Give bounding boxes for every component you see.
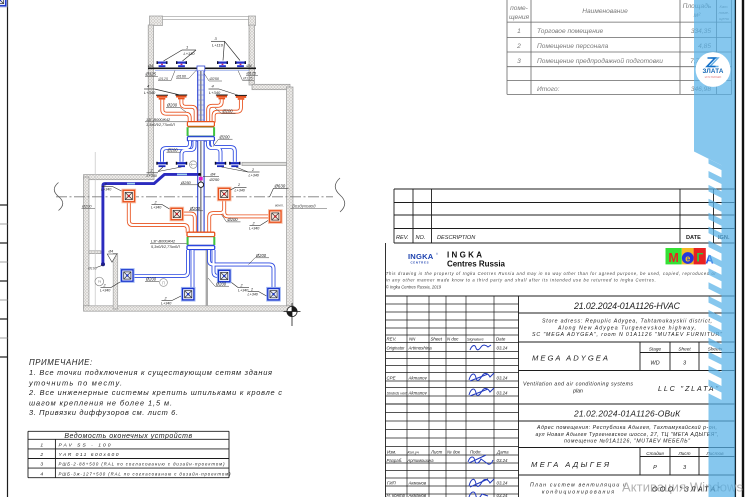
svg-text:Ø250: Ø250: [209, 76, 220, 81]
svg-text:Акманов: Акманов: [408, 480, 427, 485]
svg-text:3: 3: [40, 462, 43, 468]
svg-text:№ док: № док: [447, 450, 461, 455]
svg-text:L+340: L+340: [249, 173, 260, 177]
svg-text:2: 2: [103, 283, 106, 287]
triangle flag symbol: [107, 254, 117, 262]
supply diffuser T1: [157, 61, 168, 67]
svg-text:N doc: N doc: [447, 337, 459, 342]
svg-text:РШБ-2-88+500 (RAL по согласова: РШБ-2-88+500 (RAL по согласованию с диза…: [59, 462, 226, 467]
svg-text:WD: WD: [650, 361, 659, 367]
svg-text:L+340: L+340: [235, 189, 246, 193]
mid diffusers (4 navy): [0, 0, 6, 3]
svg-text:13Г-В000Ж42: 13Г-В000Ж42: [146, 118, 171, 122]
INGKA Centres Russia black: [447, 251, 506, 269]
svg-text:3: 3: [517, 58, 521, 65]
svg-text:Ø200: Ø200: [227, 217, 239, 222]
svg-text:1,3х0Л/2,77кх0Л: 1,3х0Л/2,77кх0Л: [146, 123, 175, 127]
svg-text:уточнить по месту.: уточнить по месту.: [28, 378, 122, 387]
ceiling grille box E (orange): [122, 189, 137, 204]
svg-text:РШБ-3ж-127+500 (RAL по согласо: РШБ-3ж-127+500 (RAL по согласованию с ди…: [59, 471, 232, 476]
wall: interior partition horizontal: [89, 251, 101, 254]
grid line light: [94, 152, 96, 306]
ceiling grille box C (blue): [181, 287, 196, 302]
svg-text:Ведомость оконечных устройст: Ведомость оконечных устройств: [64, 432, 192, 440]
orange upper diffusers (4): [0, 0, 6, 3]
blue mid tree runs: [162, 141, 235, 162]
leaders 2 L+340 for orange boxes: [102, 187, 269, 226]
ceiling grille box G (orange): [170, 207, 185, 222]
svg-text:®: ®: [436, 252, 438, 256]
svg-text:Ø200: Ø200: [222, 109, 234, 114]
russian grid labels: [387, 450, 510, 497]
svg-text:Ø160: Ø160: [176, 73, 187, 78]
wall: left wall lower: [84, 177, 90, 309]
signatures blue: [468, 345, 494, 497]
svg-text:CENTRES: CENTRES: [411, 261, 430, 265]
svg-text:L+340: L+340: [144, 90, 156, 95]
exhaust diffuser E1: [156, 95, 168, 100]
svg-text:Signature: Signature: [467, 337, 484, 342]
svg-text:Артимошина: Артимошина: [407, 458, 435, 463]
svg-text:Лист: Лист: [677, 451, 690, 456]
column/shaft line: [206, 250, 208, 306]
svg-text:Akmanov: Akmanov: [408, 375, 428, 380]
svg-text:L+340: L+340: [249, 227, 260, 231]
svg-text:L3Г-В000Ж42: L3Г-В000Ж42: [151, 240, 176, 244]
svg-text:щения: щения: [509, 14, 530, 21]
INGKA Centres blue logo: [408, 252, 438, 265]
svg-text:Artimoshina: Artimoshina: [408, 345, 433, 350]
copyright text: [386, 271, 717, 289]
svg-text:Ø200: Ø200: [145, 276, 157, 281]
svg-text:Store adress: Repuplic Adygea,: Store adress: Repuplic Adygea, Tahtamuka…: [542, 319, 712, 325]
svg-text:Stage: Stage: [649, 346, 662, 351]
svg-text:L+340: L+340: [248, 293, 259, 297]
russian left grid: [386, 412, 519, 414]
svg-text:Ø125: Ø125: [242, 76, 253, 81]
ZLATA round logo: [696, 52, 731, 87]
svg-text:2: 2: [252, 221, 255, 225]
ceiling grille box B (blue): [217, 269, 232, 284]
svg-text:Date: Date: [496, 337, 506, 342]
svg-text:Помещение персонала: Помещение персонала: [537, 43, 609, 50]
circle symbol fan: [190, 161, 197, 168]
svg-text:03.24: 03.24: [497, 480, 509, 485]
supply diffuser M1: [156, 162, 167, 167]
svg-text:центр переводов: центр переводов: [705, 76, 722, 78]
area table top right: [507, 0, 732, 94]
svg-text:Р: Р: [653, 465, 657, 471]
break symbol left: [54, 183, 63, 211]
svg-text:plan: plan: [572, 388, 583, 394]
exhaust diffuser E2: [175, 95, 187, 100]
small dim labels top row: [145, 63, 257, 81]
leader 4 L+340 left: [144, 89, 180, 95]
wall: top wall: [84, 16, 294, 311]
svg-text:2: 2: [240, 283, 243, 287]
svg-text:Ø4: Ø4: [210, 172, 216, 176]
svg-text:2: 2: [150, 169, 153, 173]
svg-text:Along New Adygea Turgenevskoe: Along New Adygea Turgenevskoe highway,: [557, 325, 696, 331]
supply diffuser M2: [176, 162, 187, 167]
exhaust diffuser E4: [235, 95, 247, 100]
leaders mid tree 2 L+340 right: [222, 167, 260, 172]
svg-text:Originator: Originator: [387, 345, 406, 350]
svg-text:Ø4: Ø4: [147, 63, 154, 68]
ceiling grille box F (orange): [217, 187, 232, 202]
upper AHU unit: [145, 118, 215, 141]
svg-text:помещение №01А1126, "MUTAEV МЕ: помещение №01А1126, "MUTAEV МЕБЕЛЬ": [564, 439, 691, 445]
svg-text:2: 2: [97, 280, 102, 283]
notes text: [28, 358, 282, 417]
svg-text:03.24: 03.24: [497, 390, 509, 395]
svg-text:Дата: Дата: [496, 450, 509, 455]
leader 3 L+110: [211, 41, 240, 60]
leaders mid tree 2 L+340 left: [147, 167, 182, 173]
svg-text:2: 2: [39, 452, 43, 458]
svg-text:Ø200: Ø200: [167, 147, 179, 152]
svg-text:Sheet: Sheet: [678, 346, 691, 351]
main title block grid: [386, 296, 736, 497]
svg-text:NN: NN: [409, 337, 416, 342]
svg-text:INGKA: INGKA: [447, 251, 482, 260]
svg-text:1. Все точки подключения к сущ: 1. Все точки подключения к существующим …: [29, 368, 272, 377]
svg-text:Ø200: Ø200: [255, 253, 267, 258]
svg-text:Ø200: Ø200: [215, 281, 227, 286]
svg-text:MEGA ADYGEA: MEGA ADYGEA: [532, 354, 608, 363]
svg-text:поме-: поме-: [510, 5, 528, 12]
svg-text:Воздуховод: Воздуховод: [292, 204, 316, 209]
svg-text:шагом крепления не более 1,5 м: шагом крепления не более 1,5 м.: [29, 398, 172, 407]
svg-text:Ø250: Ø250: [209, 177, 221, 182]
svg-text:Centres Russia: Centres Russia: [447, 260, 506, 269]
supply diffuser M4: [229, 162, 240, 167]
wall: top-right corner block: [249, 16, 256, 26]
svg-text:L+110: L+110: [184, 51, 196, 56]
devices table: [28, 431, 229, 477]
svg-text:2: 2: [237, 183, 240, 187]
svg-text:2: 2: [164, 296, 167, 300]
ceiling grille box D (blue): [266, 287, 281, 302]
svg-text:DESCRIPTION: DESCRIPTION: [437, 235, 476, 241]
svg-text:Ø630: Ø630: [274, 183, 286, 188]
leaders 2 L+340 blue boxes: [101, 282, 267, 301]
blue diffuser boxes: [0, 0, 7, 7]
wall: right wall lower: [287, 87, 294, 309]
wall: right wall upper: [249, 25, 255, 85]
wall: interior partition vertical: [113, 254, 118, 310]
wall: top-left corner block: [150, 16, 163, 26]
svg-text:1: 1: [517, 28, 521, 35]
circle grid symbol 2: [95, 277, 104, 286]
svg-text:Ø160: Ø160: [87, 267, 97, 271]
origin compass symbol: [284, 303, 301, 326]
svg-text:ЗЛАТА: ЗЛАТА: [702, 68, 723, 75]
svg-text:Наименование: Наименование: [582, 8, 628, 15]
orange diffuser boxes: [0, 0, 7, 7]
svg-text:03.24: 03.24: [497, 345, 509, 350]
svg-text:М: М: [668, 251, 678, 265]
main vertical riser upper: [198, 71, 204, 124]
ribbon body: [690, 0, 746, 497]
svg-text:Кол.уч: Кол.уч: [408, 451, 419, 455]
svg-text:Разраб.: Разраб.: [387, 458, 403, 463]
svg-text:ГИП: ГИП: [387, 480, 397, 485]
area table text: [509, 2, 730, 93]
logos row: [385, 243, 387, 497]
supply diffuser T3: [217, 61, 228, 67]
english grid labels: [387, 337, 509, 396]
logo double-Z mark: [710, 58, 719, 67]
left frame line: [0, 0, 8, 497]
svg-text:03.24: 03.24: [497, 375, 509, 380]
svg-text:L+340: L+340: [147, 174, 158, 178]
supply diffuser T2: [176, 61, 187, 67]
svg-text:Ø125: Ø125: [158, 76, 169, 81]
ceiling grille box A (blue): [120, 268, 135, 283]
svg-text:2: 2: [250, 287, 253, 291]
wall: step wall horizontal: [252, 84, 290, 89]
svg-text:Адрес помещения: Республика Ад: Адрес помещения: Республика Адыгея, Тахт…: [536, 424, 717, 431]
svg-text:YAR 011 600х600: YAR 011 600х600: [59, 452, 119, 458]
svg-text:CPE: CPE: [387, 375, 396, 380]
svg-text:L+340: L+340: [209, 90, 221, 95]
svg-text:вент.: вент.: [275, 204, 284, 208]
magenta tap: [199, 177, 203, 181]
svg-text:03.24: 03.24: [497, 493, 509, 497]
svg-text:Акманов: Акманов: [408, 493, 427, 497]
ceiling grille box H (orange): [268, 209, 283, 224]
svg-text:Ø4: Ø4: [108, 250, 114, 254]
wall: lower-left horizontal wall: [84, 175, 155, 180]
svg-text:NO.: NO.: [416, 235, 426, 241]
svg-text:REV.: REV.: [396, 235, 409, 241]
svg-text:ПРИМЕЧАНИЕ:: ПРИМЕЧАНИЕ:: [29, 358, 93, 367]
russian right cells: [519, 420, 736, 422]
wall: bottom wall: [84, 306, 294, 311]
svg-text:2. Все инженерные системы креп: 2. Все инженерные системы крепить шпильк…: [28, 388, 282, 397]
svg-text:Ø200: Ø200: [219, 134, 231, 139]
svg-text:2: 2: [154, 200, 157, 204]
svg-text:L+340: L+340: [101, 188, 112, 192]
revision table: [394, 189, 735, 243]
svg-text:Итого:: Итого:: [537, 86, 560, 93]
svg-text:П: П: [162, 280, 165, 285]
svg-text:Изм.: Изм.: [387, 450, 396, 455]
right frame lines: [735, 0, 743, 497]
svg-text:PAV SS - 100: PAV SS - 100: [59, 443, 111, 449]
svg-text:Торговое помещение: Торговое помещение: [537, 28, 604, 35]
svg-text:© Ingka Centres Russia, 2: © Ingka Centres Russia, 2019: [386, 284, 442, 289]
supply diffuser T4: [235, 61, 246, 67]
top supply duct (black): [148, 67, 256, 69]
svg-text:in any other manner made: in any other manner made know to a third…: [386, 278, 656, 283]
svg-text:Stndrds verif: Stndrds verif: [387, 391, 409, 395]
wall: left wall upper: [148, 25, 153, 175]
svg-text:е: е: [685, 253, 690, 264]
english right cells: [519, 312, 736, 314]
damper box at main riser top: [197, 66, 205, 71]
svg-text:Ø200: Ø200: [81, 204, 92, 209]
wall: interior beam right: [242, 162, 287, 165]
svg-text:1: 1: [186, 45, 188, 50]
svg-text:Ø250: Ø250: [180, 180, 192, 185]
svg-text:21.02.2024-01A1126-HVAC: 21.02.2024-01A1126-HVAC: [573, 301, 681, 311]
navy trunk duct: [103, 174, 200, 263]
svg-text:Ø125: Ø125: [246, 71, 257, 76]
lower AHU unit: [150, 232, 215, 249]
svg-text:Н. контр: Н. контр: [387, 493, 406, 497]
svg-text:План систем вентиляции и: План систем вентиляции и: [530, 483, 626, 489]
svg-text:5,3х0Л/2,77кх0Л: 5,3х0Л/2,77кх0Л: [151, 245, 180, 249]
svg-text:кондиционирования: кондиционирования: [542, 489, 614, 495]
svg-text:Ventilation and air conditioni: Ventilation and air conditioning systems: [523, 382, 633, 388]
supply diffuser M3: [215, 162, 226, 167]
svg-text:Akmanov: Akmanov: [408, 390, 428, 395]
svg-text:L+340: L+340: [161, 302, 172, 306]
svg-text:3. Привязки диффузоров см. лис: 3. Привязки диффузоров см. лист 6.: [29, 408, 178, 417]
svg-text:4: 4: [40, 471, 43, 477]
svg-text:L+340: L+340: [151, 206, 162, 210]
svg-text:Ø325: Ø325: [145, 72, 157, 77]
svg-text:Ø4: Ø4: [246, 63, 253, 68]
svg-text:Sheet: Sheet: [431, 337, 443, 342]
svg-text:Лист: Лист: [430, 450, 443, 455]
english left grid: [386, 296, 519, 497]
svg-text:03.24: 03.24: [497, 458, 509, 463]
svg-text:Ø200: Ø200: [166, 103, 178, 108]
break symbol right: [335, 178, 345, 212]
MEGA logo: [666, 248, 714, 267]
leader 4 L+340 right: [209, 89, 240, 96]
svg-text:This drawing is the proper: This drawing is the property of Ingka Ce…: [386, 271, 717, 276]
svg-text:L+340: L+340: [100, 289, 111, 293]
svg-text:L+110: L+110: [212, 42, 224, 47]
top diffusers row (4 blue ceiling diffusers): [0, 0, 6, 3]
svg-text:2: 2: [104, 182, 107, 186]
svg-text:2: 2: [516, 43, 521, 50]
svg-text:Стадия: Стадия: [646, 451, 664, 456]
svg-text:REV.: REV.: [387, 337, 397, 342]
damper circle on riser: [198, 182, 203, 187]
blue bottom network: [134, 250, 274, 288]
centerline axis: [56, 196, 333, 198]
leader 1 L+110: [164, 50, 197, 61]
circle symbol П: [160, 279, 168, 287]
svg-text:Подп.: Подп.: [470, 450, 482, 455]
svg-text:2: 2: [251, 168, 254, 172]
svg-text:Помещение предпродажной подг: Помещение предпродажной подготовки: [537, 57, 663, 65]
svg-text:1: 1: [40, 443, 43, 449]
exhaust diffuser E3: [216, 95, 228, 100]
orange duct runs upper tree: [162, 99, 241, 122]
svg-text:21.02.2024-01А1126-ОВиК: 21.02.2024-01А1126-ОВиК: [573, 408, 681, 418]
svg-text:Ø200: Ø200: [189, 206, 201, 211]
main riser mid section: [198, 141, 204, 232]
